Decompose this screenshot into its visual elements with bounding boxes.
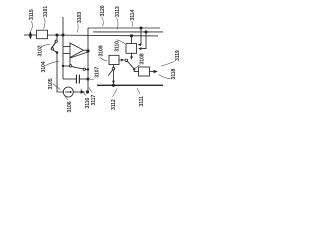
switch below box B arm <box>108 70 112 76</box>
box 3112 (left control box) <box>109 55 119 64</box>
svg-text:3103: 3103 <box>77 12 83 23</box>
box 3110 <box>126 44 137 54</box>
op-amp 3103 triangle <box>70 43 84 58</box>
leader 3112 <box>113 89 118 97</box>
wire: vertical drop from bus2 <box>141 32 146 49</box>
wire: vertical input drop x63 top <box>62 17 64 35</box>
wire: switch to x88 vertical <box>86 69 88 71</box>
reference labels (rotated) <box>29 5 181 112</box>
wire: short vertical at x70 <box>69 58 71 65</box>
svg-text:3119: 3119 <box>175 50 181 61</box>
svg-text:3111: 3111 <box>139 96 145 107</box>
svg-text:3120: 3120 <box>100 5 106 16</box>
leader 3116 <box>81 89 86 96</box>
leader 3111 <box>137 88 140 94</box>
svg-text:3109: 3109 <box>99 45 105 56</box>
node: rail junction <box>112 84 115 87</box>
switch 3104 pole wire from x63 <box>63 65 69 67</box>
wire: vertical x57 down to current source <box>57 53 64 93</box>
leader 3107 <box>90 78 94 81</box>
arrowhead pointing down from box A <box>130 56 133 59</box>
svg-text:3106: 3106 <box>67 101 73 112</box>
svg-text:3112: 3112 <box>111 99 117 110</box>
arrowhead on current source wire <box>81 90 86 93</box>
switch 3102 upper lead <box>56 35 58 40</box>
node: bus2 junction <box>144 30 147 33</box>
wire: main horizontal wire to right bus <box>47 34 158 37</box>
wire: switch to box C input <box>134 69 138 71</box>
node: bus1 junction <box>139 26 142 29</box>
node: junction at x63 <box>61 33 64 36</box>
leader lines <box>31 17 175 100</box>
wire: vertical feedback line x88 from bus to bottom <box>87 28 89 92</box>
svg-text:3102: 3102 <box>37 45 43 56</box>
leader 3119 <box>161 62 174 67</box>
wire: vertical to rail <box>113 70 115 81</box>
leader 3101 <box>44 18 46 29</box>
node: junction x88 bottom <box>86 90 89 93</box>
wire: box A top lead <box>131 36 133 44</box>
wire: feedback diagonal from output node <box>70 52 88 58</box>
wire: op-amp upper input stub <box>63 46 70 48</box>
leader 3110 <box>117 40 126 44</box>
wire: capacitor wire right <box>80 78 88 80</box>
leader 3105 <box>53 84 61 90</box>
leader 3114 <box>132 21 133 26</box>
wire: switch bottom to x57 <box>53 50 57 53</box>
leader 3118 <box>159 75 171 79</box>
arrowhead output 3118 <box>154 70 158 73</box>
switch 3104 arm <box>72 67 83 69</box>
svg-text:3105: 3105 <box>48 78 54 89</box>
leader 3104 <box>46 61 59 65</box>
svg-text:3113: 3113 <box>115 6 121 17</box>
node: junction at x57 <box>55 33 58 36</box>
capacitor 3107 right plate <box>78 75 80 84</box>
wire: box A bottom lead <box>131 54 133 57</box>
resistor/box 3101 <box>37 30 48 39</box>
leader 3108 <box>135 65 140 68</box>
node: junction below switch <box>56 51 59 54</box>
svg-text:3108: 3108 <box>139 53 145 64</box>
switch 3102 bottom contact <box>51 48 53 50</box>
switch 3102 top contact <box>55 40 57 42</box>
switch 3104 right contact <box>83 68 85 70</box>
switch 3119 left contact <box>125 59 128 62</box>
switch 3119 arm <box>127 61 133 68</box>
current source 3106 circle <box>63 87 73 97</box>
node: op-amp output junction <box>86 49 89 52</box>
wire: capacitor wire left <box>63 78 76 80</box>
wire: box C output <box>150 71 155 73</box>
box 3111 output box C <box>139 67 150 76</box>
wire: current source output <box>73 91 81 93</box>
current source arrow inside <box>65 91 70 93</box>
wire: main horizontal wire left segment <box>24 34 36 36</box>
svg-text:3107: 3107 <box>94 67 100 78</box>
capacitor 3107 left plate <box>75 75 77 84</box>
switch below box B contact <box>112 67 115 70</box>
svg-text:3115: 3115 <box>29 9 35 20</box>
wire: box B bottom lead <box>113 65 115 68</box>
rail: bottom horizontal rail <box>97 84 163 86</box>
leader 3102 <box>42 45 50 47</box>
leader 3113 <box>117 18 119 30</box>
svg-text:3110: 3110 <box>114 41 120 52</box>
switch 3119 right contact dot <box>133 68 135 70</box>
wire: vertical x63 down through opamp inputs <box>62 35 64 79</box>
wire: box B right lead <box>120 59 122 61</box>
node: bus3 junction above box 3110 <box>130 34 133 37</box>
leader 3109 <box>100 58 107 62</box>
svg-text:3114: 3114 <box>130 10 136 21</box>
leader 3103 <box>76 24 79 33</box>
svg-text:3104: 3104 <box>41 61 47 72</box>
svg-text:3118: 3118 <box>171 69 177 80</box>
arrowhead into box right side (from bus2) <box>138 47 141 50</box>
leader 3115 <box>31 21 33 31</box>
bus line 1 (3120) <box>88 27 160 29</box>
wire: op-amp lower input stub <box>63 53 70 55</box>
svg-text:3101: 3101 <box>43 6 49 17</box>
node: junction x63 switch <box>62 65 64 67</box>
arrowhead down to rail <box>112 81 115 85</box>
bus line 2 (3113) <box>93 31 163 33</box>
leader 3117 <box>89 87 92 92</box>
wire: vertical drop from bus1 <box>139 28 141 45</box>
node: junction cap/x88 <box>86 77 89 80</box>
switch 3104 left contact <box>69 65 71 67</box>
wire: op-amp output stub <box>84 49 89 51</box>
leader 3120 <box>102 17 104 26</box>
node: junction x88 switch <box>87 68 89 70</box>
arrowhead into box right side (from bus1) <box>138 43 141 46</box>
node: input arrow marker 3115 <box>29 31 32 40</box>
leader 3106 <box>65 96 69 100</box>
svg-text:3117: 3117 <box>91 95 97 106</box>
switch 3102 arm <box>52 42 56 48</box>
arrowhead right of box B <box>121 59 124 62</box>
